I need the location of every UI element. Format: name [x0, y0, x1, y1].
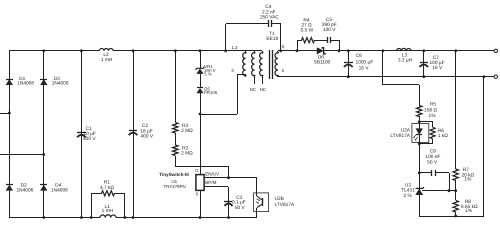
svg-text:R6: R6 — [438, 128, 444, 134]
svg-text:BP/M: BP/M — [205, 180, 216, 185]
svg-text:TL431: TL431 — [401, 188, 415, 194]
svg-text:LTV817A: LTV817A — [275, 202, 295, 208]
svg-text:R7: R7 — [463, 167, 469, 173]
svg-text:2.2 nF: 2.2 nF — [262, 9, 276, 15]
svg-text:C8: C8 — [430, 149, 436, 155]
svg-text:1%: 1% — [464, 177, 472, 183]
svg-text:400 V: 400 V — [141, 133, 154, 139]
svg-text:NC: NC — [260, 87, 266, 92]
svg-text:10 µF: 10 µF — [83, 131, 95, 137]
svg-text:16 V: 16 V — [359, 65, 370, 71]
svg-text:U3: U3 — [405, 182, 411, 188]
svg-text:1%: 1% — [465, 208, 473, 214]
svg-text:400 V: 400 V — [83, 136, 96, 142]
svg-text:1 kΩ: 1 kΩ — [438, 133, 448, 139]
svg-text:100 V: 100 V — [323, 27, 336, 33]
svg-text:C4: C4 — [265, 4, 271, 10]
svg-text:D: D — [195, 168, 198, 173]
svg-text:C5: C5 — [326, 17, 332, 23]
svg-text:C2: C2 — [142, 123, 148, 129]
svg-text:1000 µF: 1000 µF — [356, 60, 374, 66]
svg-text:1%: 1% — [429, 113, 437, 119]
svg-text:TinySwitch-III: TinySwitch-III — [159, 172, 189, 177]
svg-text:R1: R1 — [104, 180, 110, 186]
svg-text:27 Ω: 27 Ω — [301, 22, 312, 28]
svg-text:0.1 µF: 0.1 µF — [232, 200, 246, 206]
svg-text:50 V: 50 V — [427, 159, 438, 165]
svg-text:R5: R5 — [430, 101, 436, 107]
svg-text:R4: R4 — [303, 17, 309, 23]
svg-text:C1: C1 — [86, 126, 92, 132]
svg-text:S: S — [195, 192, 198, 197]
svg-text:250 VAC: 250 VAC — [260, 15, 279, 21]
svg-text:16 V: 16 V — [432, 65, 443, 71]
svg-text:C6: C6 — [356, 53, 362, 59]
svg-text:50 V: 50 V — [235, 205, 246, 211]
svg-text:SB1100: SB1100 — [314, 60, 331, 66]
svg-text:1 mH: 1 mH — [101, 57, 113, 63]
svg-text:L3: L3 — [402, 52, 408, 58]
svg-text:5 %: 5 % — [204, 71, 212, 76]
svg-text:100 nF: 100 nF — [425, 154, 440, 160]
svg-text:2 MΩ: 2 MΩ — [181, 128, 193, 134]
svg-text:1 mH: 1 mH — [102, 208, 114, 214]
svg-text:LTV817A: LTV817A — [390, 133, 410, 139]
svg-text:390 pF: 390 pF — [322, 22, 337, 28]
svg-text:C7: C7 — [433, 55, 439, 61]
svg-text:T1: T1 — [269, 31, 275, 37]
svg-text:FR106: FR106 — [204, 90, 218, 95]
svg-text:R3: R3 — [182, 123, 188, 129]
svg-text:158 Ω: 158 Ω — [424, 107, 437, 113]
svg-text:R2: R2 — [182, 145, 188, 151]
svg-text:U2B: U2B — [275, 196, 284, 202]
svg-text:2 MΩ: 2 MΩ — [181, 150, 193, 156]
svg-text:0.5 W: 0.5 W — [301, 28, 314, 34]
svg-text:TNY279PN: TNY279PN — [163, 184, 185, 189]
svg-text:1N4006: 1N4006 — [52, 81, 69, 87]
svg-text:L2: L2 — [103, 52, 109, 58]
svg-text:3.3 µH: 3.3 µH — [398, 58, 413, 64]
svg-text:NC: NC — [250, 87, 256, 92]
svg-text:18 µF: 18 µF — [140, 128, 152, 134]
svg-text:EN/UV: EN/UV — [205, 171, 220, 176]
svg-text:1N4006: 1N4006 — [16, 187, 33, 193]
svg-text:2 %: 2 % — [403, 193, 412, 199]
svg-text:1,2: 1,2 — [231, 45, 238, 50]
svg-text:4.7 kΩ: 4.7 kΩ — [100, 185, 114, 191]
svg-text:U2A: U2A — [401, 128, 411, 134]
svg-text:1N4006: 1N4006 — [51, 187, 68, 193]
svg-text:EE19: EE19 — [266, 36, 278, 42]
svg-text:D6: D6 — [318, 55, 324, 61]
svg-text:1N4006: 1N4006 — [17, 81, 34, 87]
